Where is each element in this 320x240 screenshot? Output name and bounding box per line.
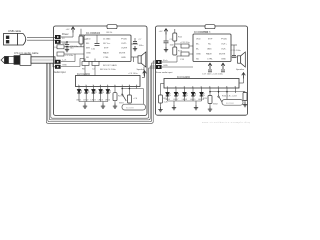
svg-text:+C6: +C6 bbox=[133, 98, 138, 100]
svg-text:w w w . c i r c u i t b a s i: w w w . c i r c u i t b a s i c s . e x … bbox=[202, 121, 250, 124]
svg-text:BYP: BYP bbox=[208, 39, 213, 41]
svg-text:Audio input: Audio input bbox=[54, 71, 66, 74]
svg-text:GND: GND bbox=[163, 65, 168, 67]
svg-text:SD: SD bbox=[86, 57, 89, 59]
svg-text:BOOST GAIN: BOOST GAIN bbox=[103, 64, 117, 67]
svg-text:+C13 10u: +C13 10u bbox=[180, 42, 190, 44]
svg-text:+C15 100u: +C15 100u bbox=[230, 50, 242, 52]
svg-text:Power: Power bbox=[62, 33, 69, 36]
svg-text:VDD: VDD bbox=[196, 39, 201, 41]
svg-text:MUTE: MUTE bbox=[119, 52, 126, 54]
svg-text:BUZZER: BUZZER bbox=[226, 103, 235, 105]
svg-text:IC3 PAM8403: IC3 PAM8403 bbox=[194, 31, 209, 34]
svg-text:USB cable: USB cable bbox=[8, 29, 22, 33]
svg-text:OUT-: OUT- bbox=[221, 49, 226, 51]
svg-text:100n: 100n bbox=[139, 45, 145, 47]
svg-text:C10: C10 bbox=[91, 49, 96, 51]
svg-text:GND: GND bbox=[62, 65, 67, 67]
svg-text:R16 4.7k +C18: R16 4.7k +C18 bbox=[222, 96, 237, 98]
svg-text:SD Vcc: SD Vcc bbox=[103, 43, 111, 45]
svg-text:+C5 100u: +C5 100u bbox=[128, 73, 138, 75]
svg-text:PVDD: PVDD bbox=[221, 39, 227, 41]
svg-text:NC: NC bbox=[208, 44, 212, 46]
svg-text:OUTR: OUTR bbox=[121, 48, 128, 50]
svg-text:INL: INL bbox=[86, 43, 90, 45]
svg-text:SW2: SW2 bbox=[213, 104, 219, 106]
svg-text:R8 1k: R8 1k bbox=[107, 32, 114, 34]
svg-text:R6 10k C4 100n: R6 10k C4 100n bbox=[100, 69, 117, 71]
svg-text:R12: R12 bbox=[178, 37, 183, 39]
svg-text:+5V: +5V bbox=[159, 31, 163, 33]
svg-text:Speaker: Speaker bbox=[236, 68, 244, 71]
svg-text:PVDD: PVDD bbox=[121, 39, 127, 41]
svg-text:100n: 100n bbox=[170, 45, 176, 47]
svg-text:1.2k: 1.2k bbox=[164, 102, 169, 104]
svg-text:+5V: +5V bbox=[66, 29, 70, 31]
svg-text:1k VAG: 1k VAG bbox=[103, 38, 111, 41]
svg-text:IN+: IN+ bbox=[196, 44, 200, 46]
svg-text:BUZZER: BUZZER bbox=[126, 108, 135, 110]
svg-text:+C1 10u: +C1 10u bbox=[65, 48, 74, 50]
svg-text:SD: SD bbox=[196, 58, 199, 60]
svg-text:C17 100n +C16 100u: C17 100n +C16 100u bbox=[202, 74, 224, 76]
svg-text:IN-: IN- bbox=[196, 49, 199, 51]
svg-text:INR: INR bbox=[86, 48, 90, 50]
svg-text:R-ch: R-ch bbox=[163, 60, 168, 62]
svg-text:C7: C7 bbox=[139, 39, 143, 41]
svg-text:GND: GND bbox=[86, 52, 91, 54]
svg-text:GND: GND bbox=[221, 58, 226, 60]
svg-text:5V: 5V bbox=[62, 38, 65, 40]
svg-text:From audio input: From audio input bbox=[156, 71, 173, 74]
svg-text:L-ch: L-ch bbox=[62, 60, 67, 62]
svg-text:FADE: FADE bbox=[103, 51, 109, 54]
svg-text:OUTL: OUTL bbox=[121, 43, 128, 45]
svg-text:CTRL: CTRL bbox=[207, 58, 213, 60]
svg-text:R15: R15 bbox=[203, 98, 208, 100]
svg-text:C14: C14 bbox=[180, 59, 185, 61]
svg-text:MUTE: MUTE bbox=[219, 54, 226, 56]
svg-text:GND: GND bbox=[121, 57, 126, 59]
svg-text:CTRL: CTRL bbox=[103, 57, 109, 59]
svg-text:IC1 PAM8403: IC1 PAM8403 bbox=[86, 32, 101, 35]
svg-text:VDD: VDD bbox=[86, 39, 91, 41]
svg-text:GND: GND bbox=[196, 54, 201, 56]
svg-text:Speaker: Speaker bbox=[137, 68, 145, 71]
svg-text:C3 100n: C3 100n bbox=[65, 55, 74, 57]
svg-text:FADE: FADE bbox=[206, 53, 212, 56]
svg-text:OUT+: OUT+ bbox=[221, 44, 228, 46]
svg-text:VAG: VAG bbox=[207, 48, 212, 51]
svg-text:BYP: BYP bbox=[104, 48, 109, 50]
